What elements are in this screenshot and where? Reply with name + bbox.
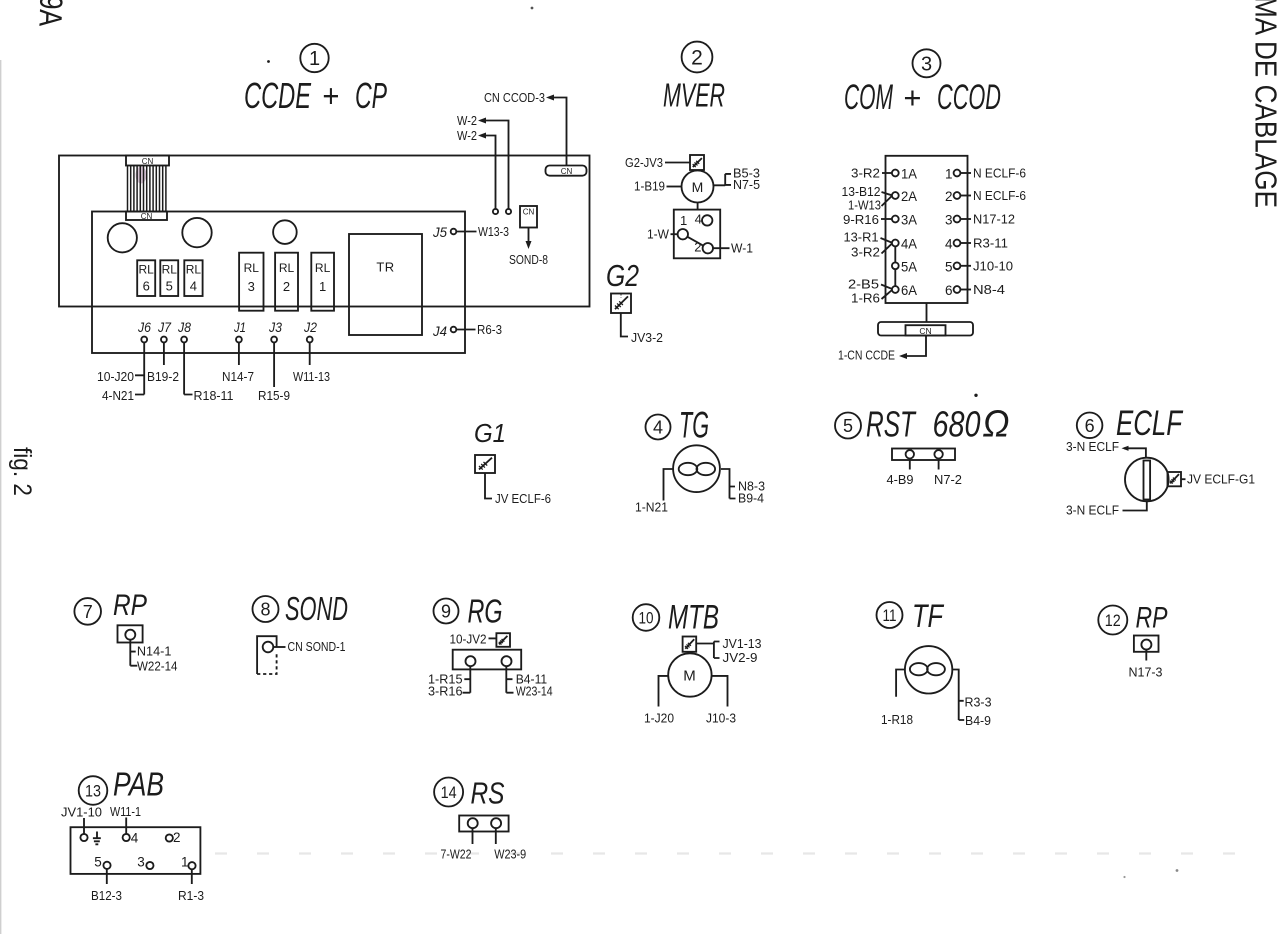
- ground symbol: [93, 832, 101, 845]
- connector block PAB box: [71, 827, 201, 874]
- title COM + CCOD: [844, 78, 1001, 117]
- svg-text:RL: RL: [162, 263, 178, 277]
- mounting hole B: [182, 218, 211, 247]
- svg-text:4: 4: [653, 418, 663, 438]
- resistor RST body: [892, 449, 955, 461]
- svg-text:MTB: MTB: [668, 599, 719, 637]
- svg-text:G2: G2: [606, 258, 639, 293]
- section marker 5: [835, 413, 861, 439]
- svg-text:JV1-10: JV1-10: [61, 805, 102, 820]
- wires B4-11 / W23-14: [506, 666, 552, 698]
- svg-text:MVER: MVER: [663, 77, 725, 114]
- pin 5A / link wire 4A-5A-6A: [892, 246, 917, 286]
- wires 1-R15 / 3-R16: [428, 666, 470, 698]
- relay RL2: [275, 253, 298, 311]
- section marker 12: [1098, 606, 1127, 635]
- section marker 1: [300, 44, 328, 72]
- svg-text:13-R1: 13-R1: [844, 230, 879, 245]
- section marker 9: [434, 599, 459, 624]
- svg-text:N8-4: N8-4: [973, 282, 1005, 297]
- wire N7-2: [934, 459, 962, 488]
- svg-text:6: 6: [945, 283, 953, 298]
- svg-text:CN SOND-1: CN SOND-1: [288, 639, 346, 654]
- thermal protector (klixon) G1: [475, 455, 495, 473]
- svg-text:4-N21: 4-N21: [102, 388, 134, 403]
- svg-text:N ECLF-6: N ECLF-6: [973, 188, 1026, 203]
- svg-text:W23-14: W23-14: [516, 683, 553, 698]
- svg-text:J8: J8: [177, 319, 191, 335]
- pin J6 / wires 10-J20, 4-N21: [97, 319, 151, 403]
- section marker 8: [253, 596, 279, 622]
- section marker 14: [434, 778, 463, 807]
- svg-text:1A: 1A: [901, 167, 917, 182]
- wires JV1-13 / JV2-9: [696, 636, 761, 665]
- pin J3 / wire R15-9: [258, 319, 290, 403]
- svg-text:RL: RL: [186, 263, 202, 277]
- mounting hole C: [273, 220, 297, 244]
- svg-text:fig. 2: fig. 2: [8, 447, 36, 496]
- svg-text:13: 13: [85, 782, 101, 801]
- svg-text:RP: RP: [113, 589, 147, 622]
- section marker 3: [913, 49, 941, 77]
- wire JV3-2: [621, 313, 663, 345]
- svg-text:RST: RST: [866, 404, 917, 445]
- thermostat TF body: [905, 646, 952, 693]
- svg-text:+: +: [322, 78, 339, 114]
- pin 6A / wires 2-B5, 1-R6: [848, 277, 917, 306]
- svg-text:5A: 5A: [901, 259, 917, 274]
- lamp ECLF: [1125, 458, 1169, 502]
- svg-text:10: 10: [639, 609, 654, 628]
- wire JV1-10: [61, 805, 102, 835]
- pin J1 / wire N14-7: [222, 319, 254, 384]
- wire N17-3: [1129, 650, 1163, 680]
- wire 4-B9: [887, 459, 914, 488]
- svg-text:1-R18: 1-R18: [881, 712, 913, 727]
- svg-text:J6: J6: [137, 319, 151, 335]
- svg-text:MA DE CABLAGE: MA DE CABLAGE: [1249, 0, 1280, 208]
- svg-text:M: M: [692, 179, 704, 195]
- svg-text:N7-5: N7-5: [733, 177, 760, 192]
- svg-text:5: 5: [843, 416, 853, 436]
- svg-text:3A: 3A: [901, 213, 917, 228]
- svg-text:2: 2: [691, 47, 703, 70]
- svg-text:1: 1: [309, 48, 320, 70]
- svg-text:COM: COM: [844, 78, 894, 117]
- pin J4 / wire R6-3: [432, 322, 502, 339]
- title CCDE + CP: [244, 75, 387, 116]
- section marker 10: [633, 604, 660, 631]
- wire 3-N ECLF top: [1066, 439, 1146, 457]
- wire G2-JV3: [625, 155, 690, 170]
- svg-text:11: 11: [883, 606, 897, 625]
- connector block COM/CCOD box: [886, 156, 968, 303]
- relay RL5: [160, 260, 178, 296]
- svg-text:R3-11: R3-11: [973, 236, 1008, 251]
- section marker 2: [682, 42, 713, 73]
- wires N8-3 / B9-4: [721, 469, 765, 506]
- pin J8 / wire R18-11: [177, 319, 233, 403]
- svg-text:3-N ECLF: 3-N ECLF: [1066, 503, 1119, 518]
- pin 1A / wire 3-R2: [851, 166, 917, 182]
- svg-text:3: 3: [921, 54, 932, 76]
- section marker 4: [646, 415, 671, 440]
- svg-text:2-B5: 2-B5: [848, 277, 879, 292]
- svg-text:N17-12: N17-12: [973, 212, 1015, 227]
- wire 1-R18: [881, 670, 913, 728]
- svg-text:5: 5: [945, 259, 953, 274]
- connector CN ribbon at board top: [126, 156, 169, 222]
- svg-text:RS: RS: [471, 776, 505, 811]
- pin 3A / wire 9-R16: [843, 212, 917, 228]
- thermal protector (klixon) MTB: [683, 637, 697, 652]
- svg-text:4A: 4A: [901, 237, 917, 252]
- svg-text:3-R2: 3-R2: [851, 245, 880, 260]
- svg-text:CN: CN: [142, 157, 154, 166]
- wire 7-W22: [441, 828, 473, 861]
- section marker 6: [1077, 413, 1103, 439]
- board CCDE outer box: [59, 156, 590, 307]
- svg-text:N7-2: N7-2: [934, 472, 962, 487]
- wire 1-J20: [644, 676, 674, 726]
- svg-text:1-R6: 1-R6: [851, 291, 880, 306]
- wire JV ECLF-6: [485, 473, 551, 506]
- svg-text:Ω: Ω: [983, 404, 1010, 446]
- svg-text:+: +: [903, 80, 921, 115]
- svg-text:TF: TF: [912, 598, 945, 634]
- svg-text:1-W: 1-W: [647, 227, 670, 242]
- svg-text:6: 6: [143, 279, 150, 294]
- svg-text:6A: 6A: [901, 283, 917, 298]
- transformer TR: [349, 234, 422, 335]
- section marker 13: [79, 776, 108, 805]
- svg-text:N14-7: N14-7: [222, 369, 254, 384]
- svg-text:680: 680: [933, 404, 981, 445]
- motor M (MTB): [668, 652, 711, 697]
- svg-text:2: 2: [945, 189, 953, 204]
- thermal protector (klixon) ECLF / wire JV ECLF-G1: [1168, 472, 1256, 487]
- svg-text:J5: J5: [432, 224, 447, 240]
- svg-text:J10-10: J10-10: [973, 258, 1013, 273]
- wire 1-B19: [634, 179, 682, 194]
- wire 1-CN CCDE: [838, 336, 926, 363]
- svg-text:N17-3: N17-3: [1129, 665, 1163, 680]
- pin 3: [137, 855, 153, 870]
- pin 4A / wires 13-R1, 3-R2: [844, 230, 918, 260]
- svg-text:JV1-13: JV1-13: [723, 636, 762, 651]
- pin 1 / wire N ECLF-6: [945, 166, 1026, 182]
- wire W11-1: [110, 804, 141, 834]
- svg-text:N14-1: N14-1: [137, 644, 172, 659]
- svg-text:J7: J7: [157, 319, 172, 335]
- svg-text:CCDE: CCDE: [244, 75, 312, 116]
- svg-text:1: 1: [319, 279, 326, 294]
- connector CN to SOND / label SOND-8: [509, 206, 548, 267]
- svg-text:G1: G1: [474, 418, 506, 448]
- wires B5-3 / N7-5: [714, 166, 761, 193]
- svg-text:TR: TR: [376, 260, 394, 275]
- pin 2A / wires 13-B12, 1-W13: [842, 184, 918, 213]
- svg-text:R18-11: R18-11: [194, 388, 234, 403]
- svg-text:JV ECLF-G1: JV ECLF-G1: [1187, 472, 1255, 487]
- wire 10-JV2: [450, 632, 497, 647]
- svg-text:4: 4: [190, 279, 197, 294]
- svg-text:2A: 2A: [901, 189, 917, 204]
- svg-text:1-CN CCDE: 1-CN CCDE: [838, 348, 895, 363]
- pin J5 / wire W13-3: [432, 224, 509, 240]
- svg-text:CN: CN: [523, 208, 535, 217]
- svg-text:CN: CN: [141, 212, 153, 221]
- svg-text:1-N21: 1-N21: [635, 500, 668, 515]
- svg-text:RL: RL: [244, 261, 260, 275]
- svg-text:W11-1: W11-1: [110, 804, 141, 819]
- svg-text:1-B19: 1-B19: [634, 179, 665, 194]
- svg-text:3: 3: [945, 213, 953, 228]
- svg-text:1: 1: [945, 167, 953, 182]
- svg-text:J2: J2: [303, 319, 317, 335]
- svg-text:2: 2: [283, 279, 290, 294]
- pin 1 / wire R1-3: [178, 855, 204, 904]
- svg-text:PAB: PAB: [113, 766, 164, 803]
- svg-text:W23-9: W23-9: [494, 846, 526, 861]
- probe SOND body: [257, 636, 277, 674]
- thermal protector (klixon) RG: [496, 633, 510, 647]
- svg-text:W-2: W-2: [457, 113, 477, 128]
- svg-text:2: 2: [173, 830, 181, 845]
- pin 2 / wire N ECLF-6: [945, 188, 1026, 204]
- svg-text:5: 5: [94, 855, 102, 870]
- svg-text:SOND: SOND: [285, 590, 348, 627]
- svg-text:RL: RL: [139, 263, 155, 277]
- svg-text:R1-3: R1-3: [178, 888, 204, 903]
- wire W-1: [713, 241, 753, 256]
- svg-text:B12-3: B12-3: [91, 888, 122, 903]
- svg-text:CN CCOD-3: CN CCOD-3: [484, 90, 545, 105]
- svg-text:9A: 9A: [32, 0, 69, 28]
- board CP inner box: [92, 212, 465, 354]
- mounting hole A: [108, 223, 137, 252]
- svg-text:ECLF: ECLF: [1116, 404, 1184, 443]
- svg-text:N ECLF-6: N ECLF-6: [973, 166, 1026, 181]
- svg-text:10-JV2: 10-JV2: [450, 632, 487, 647]
- wires N14-1 / W22-14: [130, 640, 177, 674]
- svg-text:4: 4: [695, 211, 702, 226]
- svg-text:4: 4: [945, 237, 953, 252]
- pin J2 / wire W11-13: [293, 319, 330, 384]
- svg-text:J3: J3: [268, 319, 282, 335]
- pin 4 / wire R3-11: [945, 236, 1008, 252]
- wire W-2 lower: [457, 128, 498, 214]
- svg-text:JV3-2: JV3-2: [631, 330, 663, 345]
- svg-text:3: 3: [248, 279, 255, 294]
- thermostat TG body: [673, 445, 720, 492]
- svg-text:5: 5: [166, 279, 173, 294]
- pin 5 / wire J10-10: [945, 258, 1013, 274]
- svg-text:R3-3: R3-3: [965, 695, 992, 710]
- svg-text:12: 12: [1105, 611, 1121, 630]
- heater RG body: [453, 650, 522, 670]
- svg-text:B9-4: B9-4: [738, 491, 764, 506]
- svg-text:7-W22: 7-W22: [441, 846, 472, 861]
- svg-text:J1: J1: [233, 319, 246, 335]
- svg-text:M: M: [683, 668, 696, 685]
- svg-text:1: 1: [680, 213, 687, 228]
- svg-text:W11-13: W11-13: [293, 369, 330, 384]
- motor M (MVER): [682, 170, 714, 203]
- svg-text:W22-14: W22-14: [137, 659, 178, 674]
- svg-text:8: 8: [260, 600, 270, 620]
- section marker 7: [74, 598, 101, 625]
- svg-text:B19-2: B19-2: [147, 369, 179, 384]
- title RST 680 ohm: [866, 404, 1010, 446]
- svg-text:3-R16: 3-R16: [428, 683, 463, 698]
- pin J7 / wire B19-2: [147, 319, 179, 384]
- connector RP body (12): [1134, 636, 1159, 652]
- thermal protector (klixon) G2: [611, 294, 631, 314]
- connector RP body (7): [118, 625, 143, 642]
- svg-text:9: 9: [441, 602, 451, 622]
- svg-text:7: 7: [83, 602, 93, 622]
- pin 4: [123, 831, 139, 846]
- svg-text:W13-3: W13-3: [478, 224, 509, 239]
- svg-text:3: 3: [137, 855, 145, 870]
- svg-text:CN: CN: [561, 167, 573, 176]
- svg-text:SOND-8: SOND-8: [509, 252, 548, 267]
- svg-text:10-J20: 10-J20: [97, 369, 134, 384]
- svg-text:J10-3: J10-3: [706, 711, 736, 726]
- relay RL4: [184, 260, 202, 296]
- relay RL6: [137, 260, 155, 296]
- svg-text:B4-9: B4-9: [965, 713, 991, 728]
- svg-text:RL: RL: [315, 261, 331, 275]
- svg-text:4-B9: 4-B9: [887, 472, 914, 487]
- relay RL3: [239, 253, 263, 311]
- relay RL1: [311, 253, 334, 311]
- svg-text:JV ECLF-6: JV ECLF-6: [495, 491, 551, 506]
- connector CN board right / wire CN CCOD-3: [484, 90, 587, 176]
- connector CN (CCOD): [878, 303, 973, 336]
- svg-text:JV2-9: JV2-9: [723, 650, 758, 665]
- svg-text:W-2: W-2: [457, 128, 477, 143]
- section marker 11: [877, 602, 903, 628]
- svg-text:J4: J4: [432, 323, 447, 339]
- svg-text:G2-JV3: G2-JV3: [625, 155, 663, 170]
- svg-text:W-1: W-1: [731, 241, 753, 256]
- svg-text:R6-3: R6-3: [477, 322, 502, 337]
- pin 6 / wire N8-4: [945, 282, 1005, 298]
- svg-text:4: 4: [131, 831, 139, 846]
- svg-text:RP: RP: [1136, 602, 1168, 635]
- svg-text:CN: CN: [919, 326, 931, 336]
- wire CN SOND-1: [273, 639, 345, 654]
- wire J10-3: [706, 676, 736, 726]
- svg-text:6: 6: [1085, 416, 1095, 436]
- svg-text:9-R16: 9-R16: [843, 212, 879, 227]
- svg-text:3-R2: 3-R2: [851, 166, 880, 181]
- wire 3-N ECLF bottom: [1066, 501, 1147, 517]
- svg-text:R15-9: R15-9: [258, 388, 290, 403]
- pin (gnd row): [80, 834, 87, 841]
- thermal protector (klixon) on MVER: [690, 155, 704, 170]
- svg-text:1: 1: [181, 855, 189, 870]
- wire W-2 upper: [457, 113, 511, 214]
- switch (MVER): [674, 202, 720, 258]
- svg-text:1-W13: 1-W13: [848, 198, 881, 213]
- svg-text:RL: RL: [279, 261, 295, 275]
- svg-text:TG: TG: [679, 405, 709, 446]
- svg-text:RG: RG: [468, 593, 503, 630]
- svg-text:3-N ECLF: 3-N ECLF: [1066, 439, 1119, 454]
- svg-text:14: 14: [441, 783, 457, 802]
- pin 2: [166, 830, 181, 845]
- pin 3 / wire N17-12: [945, 212, 1015, 228]
- svg-text:CCOD: CCOD: [937, 78, 1001, 117]
- pin 5 / wire B12-3: [91, 855, 122, 904]
- svg-text:1-J20: 1-J20: [644, 711, 674, 726]
- wire 1-W: [647, 227, 678, 242]
- svg-text:CP: CP: [355, 75, 387, 116]
- wire W23-9: [494, 828, 526, 861]
- wire 1-N21: [635, 469, 673, 515]
- wires R3-3 / B4-9: [952, 670, 991, 729]
- connector RS body: [459, 816, 508, 832]
